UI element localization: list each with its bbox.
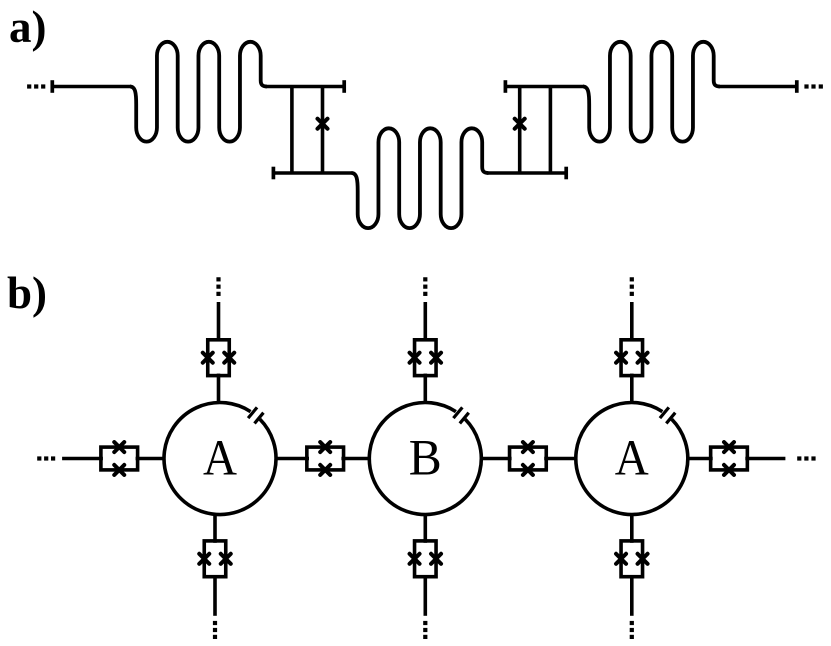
terminal tick on bottom bar J1 xyxy=(272,167,276,180)
wire bottom SQUID to dots 1 xyxy=(213,577,217,616)
wire node A1 to SQUID S2 xyxy=(275,457,309,461)
wire right branch of J1 xyxy=(321,87,325,174)
junction X right of bottom SQUID 2 xyxy=(431,554,441,564)
wire left lead xyxy=(52,85,131,89)
continuation dots left (panel a) xyxy=(27,84,31,88)
svg-text:a): a) xyxy=(9,2,47,52)
wire top SQUID to node 2 xyxy=(423,374,427,404)
wire left branch of J1 xyxy=(290,87,294,174)
wire node 2 to bottom SQUID xyxy=(423,514,427,543)
junction X left of bottom SQUID 3 xyxy=(616,554,626,564)
junction X bottom of S2 xyxy=(320,465,330,475)
svg-text:b): b) xyxy=(7,268,47,318)
wire node 3 to bottom SQUID xyxy=(630,514,634,543)
continuation dots right (panel b) xyxy=(797,456,801,460)
wire right branch of J2 xyxy=(549,87,553,174)
svg-text:A: A xyxy=(203,430,237,486)
junction X top of S1 xyxy=(114,442,124,452)
junction X right of top SQUID 3 xyxy=(638,353,648,363)
SQUID box below node 2 xyxy=(415,541,437,577)
junction X bottom of S1 xyxy=(114,465,124,475)
SQUID box S4 xyxy=(711,447,748,470)
wire node A3 to SQUID S4 xyxy=(687,457,713,461)
weak-link slash marks on node 1 xyxy=(248,407,257,418)
wire bottom SQUID to dots 2 xyxy=(423,577,427,616)
SQUID box above node 2 xyxy=(415,340,437,376)
junction X left of top SQUID 1 xyxy=(203,353,213,363)
wire S3 to node A3 xyxy=(544,457,577,461)
SQUID box above node 3 xyxy=(621,340,643,376)
junction X top of S3 xyxy=(523,442,533,452)
junction X right of top SQUID 2 xyxy=(431,353,441,363)
node circle B2 xyxy=(369,403,481,515)
svg-text:B: B xyxy=(409,430,442,486)
wire S1 to node A1 xyxy=(136,457,165,461)
wire dots to SQUID above node 2 xyxy=(423,302,427,341)
node circle A1 xyxy=(164,403,276,515)
terminal tick on top bar J1 xyxy=(342,80,346,93)
svg-text:A: A xyxy=(615,430,649,486)
josephson junction X of J1 xyxy=(318,119,328,129)
junction X bottom of S4 xyxy=(724,465,734,475)
wire bottom bar of junction loop J2 xyxy=(487,171,566,175)
continuation dots below node 3 xyxy=(630,621,634,625)
continuation dots above node 1 xyxy=(216,277,220,281)
junction X right of bottom SQUID 3 xyxy=(638,554,648,564)
inductor L1 xyxy=(130,42,267,142)
junction X right of top SQUID 1 xyxy=(224,353,234,363)
wire top SQUID to node 1 xyxy=(217,374,221,404)
terminal tick left (panel a) xyxy=(50,80,54,93)
SQUID box below node 1 xyxy=(204,541,226,577)
wire dots to SQUID above node 3 xyxy=(630,302,634,341)
inductor L3 xyxy=(583,42,720,142)
terminal tick on bottom bar J2 xyxy=(564,167,568,180)
wire top bar of junction loop J1 xyxy=(266,85,345,89)
weak-link slash marks on node 2 xyxy=(453,407,462,418)
wire right lead xyxy=(719,85,797,89)
continuation dots above node 3 xyxy=(630,277,634,281)
SQUID box below node 3 xyxy=(621,541,643,577)
SQUID box S3 xyxy=(510,447,547,470)
node circle A3 xyxy=(576,403,688,515)
continuation dots below node 2 xyxy=(423,621,427,625)
terminal tick right (panel a) xyxy=(795,80,799,93)
inductor L2 xyxy=(352,128,489,228)
wire node B to SQUID S3 xyxy=(480,457,511,461)
junction X top of S4 xyxy=(724,442,734,452)
continuation dots right (panel a) xyxy=(804,84,808,88)
junction X left of top SQUID 3 xyxy=(616,353,626,363)
wire S4 to right dots xyxy=(745,457,785,461)
junction X bottom of S3 xyxy=(523,465,533,475)
wire left branch of J2 xyxy=(518,87,522,174)
junction X left of bottom SQUID 2 xyxy=(410,554,420,564)
junction X left of bottom SQUID 1 xyxy=(199,554,209,564)
weak-link slash marks on node 3 xyxy=(660,407,669,418)
continuation dots below node 1 xyxy=(213,621,217,625)
wire from left dots to SQUID S1 xyxy=(62,457,103,461)
josephson junction X of J2 xyxy=(515,119,525,129)
SQUID box S1 xyxy=(101,447,138,470)
terminal tick on top bar J2 xyxy=(504,80,508,93)
wire top SQUID to node 3 xyxy=(630,374,634,404)
SQUID box S2 xyxy=(307,447,344,470)
wire bottom SQUID to dots 3 xyxy=(630,577,634,616)
wire S2 to node B xyxy=(341,457,370,461)
wire bottom bar of junction loop J1 xyxy=(273,171,352,175)
wire top bar of junction loop J2 xyxy=(505,85,584,89)
continuation dots above node 2 xyxy=(423,277,427,281)
continuation dots left (panel b) xyxy=(37,456,41,460)
wire dots to SQUID above node 1 xyxy=(217,302,221,341)
junction X left of top SQUID 2 xyxy=(410,353,420,363)
SQUID box above node 1 xyxy=(208,340,230,376)
wire node 1 to bottom SQUID xyxy=(213,514,217,543)
junction X right of bottom SQUID 1 xyxy=(221,554,231,564)
junction X top of S2 xyxy=(320,442,330,452)
